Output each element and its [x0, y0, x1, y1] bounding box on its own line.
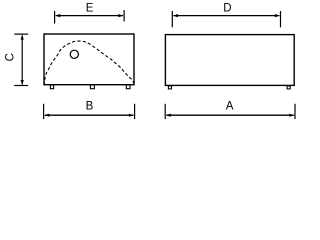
svg-text:C: C — [5, 53, 17, 61]
svg-text:E: E — [86, 2, 94, 14]
svg-text:B: B — [86, 100, 94, 112]
svg-text:D: D — [223, 2, 231, 14]
svg-text:A: A — [226, 100, 234, 112]
